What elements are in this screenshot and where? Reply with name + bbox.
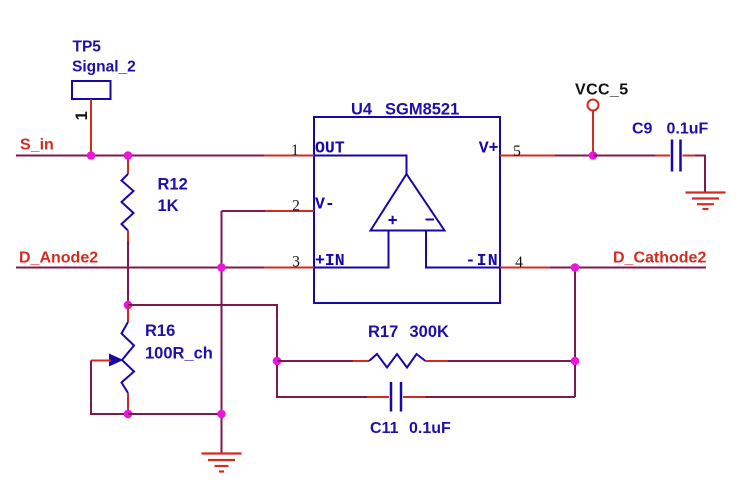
svg-text:5: 5 <box>513 143 521 160</box>
svg-text:D_Cathode2: D_Cathode2 <box>613 250 706 267</box>
resistor R16 bottom lead <box>127 393 129 414</box>
pin 2 lead <box>264 210 314 212</box>
svg-text:1: 1 <box>291 142 299 159</box>
junction dot VCC node <box>589 151 598 160</box>
svg-text:SGM8521: SGM8521 <box>385 101 459 119</box>
wire pin5 to VCC node <box>555 155 593 157</box>
plus sign inside triangle <box>389 219 397 221</box>
wire C9 to ground <box>695 156 705 193</box>
junction dot R16 bottom <box>124 410 133 419</box>
op-amp minus input stub <box>426 231 500 268</box>
svg-text:1K: 1K <box>158 197 179 215</box>
svg-text:S_in: S_in <box>20 137 54 154</box>
svg-text:R12: R12 <box>158 176 188 194</box>
wire node to feedback branch <box>128 305 367 397</box>
wire pin4 to D_Cathode2 <box>550 267 706 269</box>
wire vertical V-/D_Anode2/ground <box>221 211 223 453</box>
potentiometer R16 wiper arrow <box>110 354 123 365</box>
svg-text:C9: C9 <box>632 121 653 138</box>
TP5 pin 1 lead <box>90 99 92 156</box>
wire R17 right to node <box>448 360 575 362</box>
op-amp output line inside <box>314 156 407 175</box>
svg-text:R17: R17 <box>368 323 398 341</box>
op-amp triangle <box>371 174 445 231</box>
resistor R12 zigzag <box>122 174 134 231</box>
pin 3 lead <box>264 267 314 269</box>
svg-text:Signal_2: Signal_2 <box>72 59 136 76</box>
test point TP5 body <box>72 81 111 99</box>
potentiometer R16 top lead <box>127 305 129 322</box>
power port VCC_5 circle <box>588 100 599 111</box>
svg-text:TP5: TP5 <box>73 39 102 56</box>
wire D_Anode2 horizontal <box>16 267 266 269</box>
junction dot TP5/S_in <box>87 151 96 160</box>
junction dot R12/R16 node <box>124 301 133 310</box>
junction dot R17 right <box>571 357 580 366</box>
svg-text:3: 3 <box>292 254 300 271</box>
resistor R12 bottom lead <box>127 231 129 243</box>
resistor R17 right lead <box>426 360 449 362</box>
op-amp plus input stub <box>314 231 389 268</box>
svg-text:V-: V- <box>315 195 335 214</box>
svg-text:1: 1 <box>73 111 91 120</box>
wire right vertical feedback <box>574 268 576 398</box>
svg-text:U4: U4 <box>351 101 373 119</box>
capacitor C11 left lead <box>367 396 389 398</box>
junction dot bottom ground node <box>217 410 226 419</box>
svg-text:100R_ch: 100R_ch <box>145 345 213 363</box>
svg-text:300K: 300K <box>410 323 450 341</box>
pin 5 lead <box>500 155 555 157</box>
capacitor C9 left lead <box>655 155 670 157</box>
wire C11 right to node <box>426 396 576 398</box>
resistor R17 zigzag <box>369 354 426 368</box>
resistor R12 top lead <box>127 156 129 175</box>
svg-text:0.1uF: 0.1uF <box>667 121 709 138</box>
wire R12 bottom to node <box>127 241 129 305</box>
capacitor C11 right lead <box>403 396 426 398</box>
wire VCC drop <box>592 111 594 156</box>
junction dot V- x D_Anode2 <box>217 263 226 272</box>
svg-text:C11: C11 <box>370 420 399 437</box>
svg-text:0.1uF: 0.1uF <box>409 420 451 437</box>
svg-text:2: 2 <box>292 198 300 215</box>
wire VCC node to C9 <box>593 155 656 157</box>
op-amp U1 box <box>314 117 500 303</box>
svg-text:OUT: OUT <box>315 139 345 158</box>
resistor R17 left lead <box>353 360 369 362</box>
svg-text:4: 4 <box>515 254 523 271</box>
svg-text:R16: R16 <box>145 322 175 340</box>
svg-text:VCC_5: VCC_5 <box>575 82 629 99</box>
svg-text:+IN: +IN <box>315 251 345 270</box>
capacitor C9 right lead <box>683 155 697 157</box>
wire feedback left to R17 <box>277 360 354 362</box>
potentiometer R16 wiper lead <box>91 360 111 362</box>
svg-text:V+: V+ <box>479 139 499 158</box>
junction dot feedback left <box>273 357 282 366</box>
wire bottom node to ground vertical <box>128 413 222 415</box>
svg-text:-IN: -IN <box>466 251 499 270</box>
potentiometer R16 zigzag <box>122 322 135 393</box>
wire V- to vertical <box>222 210 266 212</box>
capacitor C11 plates <box>390 382 393 412</box>
minus sign inside triangle <box>426 219 435 221</box>
junction dot pin4 node <box>571 263 580 272</box>
ground symbol right <box>686 193 726 210</box>
wire S_in horizontal <box>16 155 266 157</box>
ground symbol left <box>202 454 242 472</box>
capacitor C9 plates <box>671 140 674 172</box>
pin 1 lead <box>264 155 314 157</box>
wire wiper return <box>91 361 128 415</box>
pin 4 lead <box>500 267 550 269</box>
svg-text:D_Anode2: D_Anode2 <box>19 250 98 267</box>
junction dot R12/S_in <box>124 151 133 160</box>
